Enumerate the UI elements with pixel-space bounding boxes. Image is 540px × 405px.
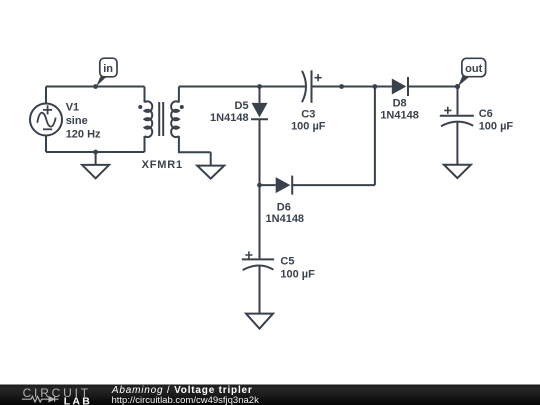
node in flag — [96, 76, 107, 87]
capacitor C3 plate left (curved) — [302, 71, 306, 102]
svg-text:100 µF: 100 µF — [291, 120, 326, 132]
transformer XFMR1 secondary winding — [171, 101, 179, 137]
footer bar — [0, 385, 540, 405]
diode D6 — [276, 177, 291, 193]
diode D8 — [392, 79, 407, 95]
diode D5 lead top — [259, 87, 261, 103]
wire D6 to branch — [292, 184, 375, 186]
node out junction dot — [455, 84, 460, 89]
svg-text:1N4148: 1N4148 — [266, 213, 305, 225]
svg-text:100 µF: 100 µF — [479, 120, 514, 132]
transformer XFMR1 primary phase dot — [138, 105, 142, 109]
node junction dot (D6 anode) — [257, 183, 262, 188]
svg-text:C3: C3 — [301, 109, 315, 121]
capacitor C6 plus sign — [444, 107, 451, 114]
svg-text:1N4148: 1N4148 — [210, 112, 249, 124]
junction dot (D6 branch) — [373, 84, 378, 89]
svg-text:1N4148: 1N4148 — [380, 109, 419, 121]
svg-text:D6: D6 — [277, 202, 291, 214]
capacitor C5 plus sign — [245, 251, 252, 258]
svg-text:C5: C5 — [280, 256, 294, 268]
svg-text:out: out — [465, 63, 482, 75]
node out flag — [458, 76, 470, 87]
transformer XFMR1 core — [159, 102, 163, 136]
transformer XFMR1 primary winding — [145, 101, 153, 137]
capacitor C3 plate right — [311, 70, 313, 103]
wire top-left (V1 to XFMR1 primary) — [46, 86, 145, 88]
svg-text:sine: sine — [66, 115, 88, 127]
wire D5 cathode to D6 — [260, 184, 276, 186]
capacitor C5 lead bottom — [259, 266, 261, 314]
capacitor C6 plate top — [440, 115, 474, 117]
diode D5 lead bottom — [259, 119, 261, 185]
capacitor C5 plate top — [242, 258, 274, 260]
transformer XFMR1 secondary lead bottom — [179, 136, 211, 152]
capacitor C3 plus sign — [315, 74, 322, 81]
svg-text:100 µF: 100 µF — [280, 268, 315, 280]
junction dot mid wire — [339, 84, 344, 89]
capacitor C6 lead bottom — [456, 122, 458, 165]
capacitor C5 plate bottom (curved) — [243, 265, 274, 270]
diode D5 — [252, 103, 268, 118]
ground (V1) — [95, 152, 97, 165]
wire V1 top lead — [45, 87, 47, 104]
wire V1 bottom lead — [45, 136, 47, 153]
node junction dot (ground tap) — [93, 150, 98, 155]
voltage source V1 — [30, 104, 62, 136]
node junction dot (D5 anode) — [257, 84, 262, 89]
capacitor C6 lead top — [457, 87, 459, 115]
transformer XFMR1 secondary lead top — [178, 87, 180, 103]
capacitor C6 plate bottom (curved) — [441, 122, 473, 127]
svg-text:LAB: LAB — [64, 395, 92, 405]
wire D8 to out node — [408, 86, 458, 88]
svg-text:V1: V1 — [66, 102, 79, 114]
svg-text:120 Hz: 120 Hz — [66, 128, 101, 140]
transformer XFMR1 primary lead bottom — [144, 136, 146, 152]
svg-text:D5: D5 — [235, 100, 249, 112]
wire branch down to D6 — [374, 87, 376, 186]
ground (C6) — [444, 165, 471, 178]
wire bottom-left — [46, 151, 145, 153]
footer logo resistor-diode squiggle — [22, 396, 59, 402]
transformer XFMR1 primary lead top — [144, 87, 146, 103]
transformer XFMR1 secondary phase dot — [180, 105, 184, 109]
wire top-middle (secondary to C3) — [179, 86, 306, 88]
svg-text:C6: C6 — [479, 108, 493, 120]
svg-text:http://circuitlab.com/cw49sfjq: http://circuitlab.com/cw49sfjq3na2k — [112, 395, 260, 405]
ground (C5) — [246, 314, 273, 329]
svg-text:in: in — [103, 63, 113, 75]
ground (XFMR1 secondary) — [210, 152, 212, 165]
svg-text:XFMR1: XFMR1 — [142, 159, 183, 171]
wire C3 to D8 — [312, 86, 392, 88]
node in junction dot — [93, 84, 98, 89]
capacitor C5 lead top — [259, 185, 261, 258]
svg-text:D8: D8 — [393, 97, 407, 109]
